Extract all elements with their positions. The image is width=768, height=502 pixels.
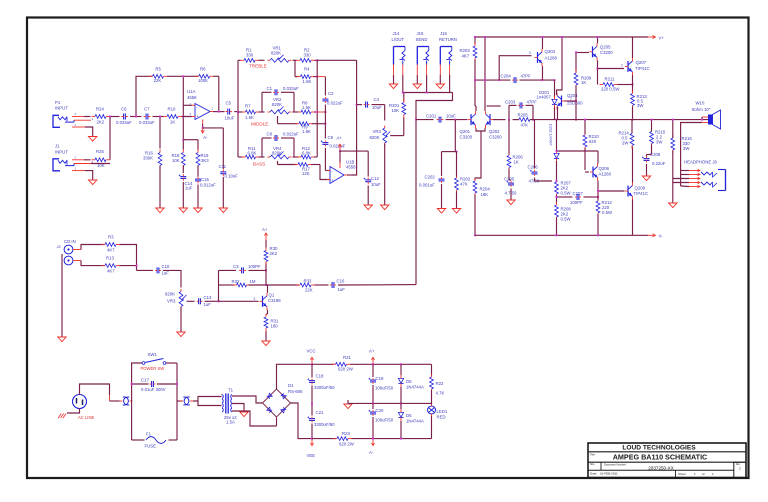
svg-text:HEADPHONE J6: HEADPHONE J6	[684, 160, 718, 165]
svg-text:J1: J1	[55, 144, 60, 149]
svg-text:C208: C208	[650, 152, 661, 157]
svg-text:4558: 4558	[187, 95, 197, 100]
svg-text:0.5W: 0.5W	[561, 191, 572, 196]
svg-text:0.033uF: 0.033uF	[139, 120, 155, 125]
svg-text:2037250-XX: 2037250-XX	[648, 465, 674, 470]
svg-text:18K: 18K	[481, 192, 489, 197]
svg-text:A-: A-	[369, 450, 374, 455]
svg-text:R32: R32	[232, 279, 240, 284]
svg-text:0.001uF: 0.001uF	[419, 183, 435, 188]
svg-text:0.033uF: 0.033uF	[116, 120, 132, 125]
svg-text:C7: C7	[144, 107, 150, 112]
svg-text:A+: A+	[369, 349, 375, 354]
svg-text:AMPEG BA110 SCHEMATIC: AMPEG BA110 SCHEMATIC	[613, 453, 708, 462]
svg-text:4.7K: 4.7K	[436, 391, 445, 396]
svg-text:L/OUT: L/OUT	[392, 37, 405, 42]
svg-text:W10: W10	[696, 101, 705, 106]
svg-text:10uF: 10uF	[371, 182, 381, 187]
svg-text:J16: J16	[440, 31, 448, 36]
svg-text:4K7: 4K7	[462, 54, 470, 59]
svg-text:Q201: Q201	[460, 129, 471, 134]
svg-text:FUSE: FUSE	[145, 444, 157, 449]
svg-text:TIP41C: TIP41C	[635, 66, 650, 71]
svg-text:LOUD TECHNOLOGIES: LOUD TECHNOLOGIES	[622, 444, 696, 451]
svg-text:820K: 820K	[370, 135, 380, 140]
svg-text:6.8K: 6.8K	[302, 151, 311, 156]
svg-text:100uF/50: 100uF/50	[375, 386, 394, 391]
svg-text:10uF: 10uF	[225, 116, 235, 121]
svg-text:C202: C202	[425, 175, 436, 180]
svg-text:10uF: 10uF	[372, 105, 382, 110]
svg-text:RS-606: RS-606	[288, 389, 303, 394]
svg-text:U1A: U1A	[187, 89, 195, 94]
svg-text:P1: P1	[55, 100, 61, 105]
svg-text:3300uF/50: 3300uF/50	[314, 385, 335, 390]
svg-text:R3: R3	[108, 235, 114, 240]
svg-text:1.5K: 1.5K	[302, 105, 311, 110]
svg-text:3W: 3W	[683, 146, 690, 151]
svg-text:620 2W: 620 2W	[338, 367, 354, 372]
svg-text:220 0.5W: 220 0.5W	[601, 87, 620, 92]
svg-text:100PF: 100PF	[248, 264, 261, 269]
svg-text:C5: C5	[226, 101, 232, 106]
svg-text:C3200: C3200	[600, 50, 613, 55]
svg-text:A+: A+	[262, 227, 268, 232]
svg-text:R22: R22	[436, 381, 444, 386]
svg-text:VCC: VCC	[307, 349, 316, 354]
svg-text:1.5K: 1.5K	[245, 115, 254, 120]
svg-text:T1: T1	[228, 388, 234, 393]
svg-text:C201: C201	[426, 114, 437, 119]
svg-text:10uF: 10uF	[446, 114, 456, 119]
svg-text:R33: R33	[304, 279, 312, 284]
svg-text:C10: C10	[162, 264, 170, 269]
svg-text:1uF: 1uF	[204, 302, 212, 307]
svg-text:Q303: Q303	[545, 49, 556, 54]
svg-text:3W: 3W	[637, 103, 644, 108]
svg-text:8ohm 10": 8ohm 10"	[692, 107, 711, 112]
svg-text:C18: C18	[316, 374, 324, 379]
svg-text:3300uF/50: 3300uF/50	[314, 422, 335, 427]
svg-text:820K: 820K	[165, 292, 175, 297]
svg-text:1.8K: 1.8K	[302, 129, 311, 134]
svg-text:C21: C21	[316, 410, 324, 415]
svg-text:Q202: Q202	[489, 129, 500, 134]
svg-text:1K: 1K	[514, 160, 519, 165]
svg-text:22K: 22K	[154, 78, 162, 83]
svg-text:R21: R21	[343, 355, 351, 360]
svg-text:4K7: 4K7	[107, 248, 115, 253]
svg-text:C9: C9	[328, 135, 334, 140]
svg-text:0.012uF: 0.012uF	[200, 183, 216, 188]
svg-text:C1: C1	[267, 86, 273, 91]
svg-text:820K: 820K	[272, 102, 282, 107]
svg-text:R25: R25	[96, 149, 104, 154]
svg-text:2W: 2W	[622, 141, 629, 146]
svg-text:1.5A: 1.5A	[226, 420, 235, 425]
svg-text:R7: R7	[245, 103, 251, 108]
svg-text:0.10uF: 0.10uF	[225, 174, 239, 179]
svg-text:47K: 47K	[521, 123, 529, 128]
svg-text:C16: C16	[337, 279, 345, 284]
svg-text:Document Number: Document Number	[604, 463, 626, 467]
svg-text:620: 620	[589, 139, 597, 144]
svg-text:0.033uF: 0.033uF	[283, 86, 299, 91]
svg-text:J14: J14	[393, 31, 401, 36]
svg-text:2K2: 2K2	[97, 120, 105, 125]
svg-text:A-: A-	[203, 135, 208, 140]
svg-text:C204: C204	[501, 74, 512, 79]
svg-text:C205: C205	[504, 177, 515, 182]
svg-text:C6: C6	[121, 107, 127, 112]
svg-text:C2: C2	[328, 91, 334, 96]
svg-text:D1: D1	[288, 383, 294, 388]
svg-text:Q205: Q205	[600, 45, 611, 50]
svg-text:47K: 47K	[460, 182, 468, 187]
svg-text:330: 330	[304, 52, 312, 57]
svg-text:TREBLE: TREBLE	[249, 64, 267, 69]
svg-text:Sheet: Sheet	[678, 472, 686, 476]
svg-text:820K: 820K	[272, 151, 282, 156]
svg-text:C3: C3	[233, 264, 239, 269]
svg-text:1M: 1M	[250, 279, 256, 284]
svg-text:V+: V+	[659, 36, 665, 41]
svg-text:R204: R204	[480, 187, 491, 192]
svg-text:Q208: Q208	[635, 186, 646, 191]
svg-text:R24: R24	[96, 107, 104, 112]
svg-text:INPUT: INPUT	[55, 150, 68, 155]
svg-text:R211: R211	[605, 77, 616, 82]
svg-text:VEE: VEE	[307, 453, 316, 458]
svg-text:C15: C15	[201, 177, 209, 182]
svg-text:0.22uF: 0.22uF	[652, 161, 666, 166]
svg-text:0.022uF: 0.022uF	[330, 144, 346, 149]
svg-text:SW1: SW1	[148, 352, 158, 357]
svg-text:D202 1n4007: D202 1n4007	[549, 124, 553, 146]
svg-text:CD IN: CD IN	[64, 239, 76, 244]
svg-text:1K: 1K	[581, 80, 586, 85]
svg-text:1n4007: 1n4007	[537, 95, 552, 100]
svg-text:C3200: C3200	[460, 135, 473, 140]
svg-text:J15: J15	[417, 31, 425, 36]
svg-text:3: 3	[529, 51, 531, 55]
svg-text:VR3: VR3	[167, 299, 176, 304]
svg-text:VR3: VR3	[373, 129, 382, 134]
svg-text:100PF: 100PF	[570, 200, 583, 205]
svg-text:C12: C12	[371, 176, 379, 181]
svg-text:RETURN: RETURN	[439, 37, 457, 42]
svg-text:POWER SW: POWER SW	[141, 366, 165, 371]
svg-text:180: 180	[271, 324, 279, 329]
svg-text:AC LINE: AC LINE	[78, 415, 94, 420]
svg-text:2: 2	[570, 97, 572, 101]
svg-text:Q1: Q1	[269, 293, 275, 298]
svg-text:C11: C11	[219, 164, 227, 169]
svg-text:10K: 10K	[97, 163, 105, 168]
svg-text:100uF/50: 100uF/50	[375, 418, 394, 423]
svg-text:4558: 4558	[346, 165, 356, 170]
svg-text:of: of	[702, 472, 705, 476]
svg-text:820K: 820K	[271, 50, 281, 55]
svg-text:1uF: 1uF	[185, 186, 193, 191]
svg-text:C203: C203	[505, 99, 516, 104]
svg-text:R203: R203	[460, 48, 471, 53]
svg-text:C3200: C3200	[489, 135, 502, 140]
svg-text:100K: 100K	[198, 78, 208, 83]
svg-text:1uF: 1uF	[162, 271, 170, 276]
svg-text:C206: C206	[528, 165, 539, 170]
svg-text:2: 2	[621, 64, 623, 68]
svg-text:47PF: 47PF	[527, 99, 538, 104]
svg-text:R23: R23	[342, 431, 350, 436]
svg-text:3: 3	[254, 297, 256, 301]
svg-text:Title: Title	[590, 452, 595, 456]
svg-text:INPUT: INPUT	[55, 106, 68, 111]
svg-text:3K3: 3K3	[201, 158, 209, 163]
svg-text:1K: 1K	[170, 120, 175, 125]
svg-text:Q207: Q207	[636, 60, 647, 65]
svg-text:330: 330	[246, 52, 254, 57]
svg-text:C3198: C3198	[268, 298, 281, 303]
svg-text:47PF: 47PF	[521, 74, 532, 79]
svg-text:1: 1	[739, 467, 741, 471]
svg-text:Q206: Q206	[599, 166, 610, 171]
svg-text:10K: 10K	[392, 108, 400, 113]
svg-text:TIP41C: TIP41C	[634, 191, 649, 196]
svg-text:R10: R10	[168, 107, 176, 112]
svg-text:2K2: 2K2	[270, 251, 278, 256]
svg-text:R5: R5	[155, 67, 161, 72]
svg-text:LED1: LED1	[437, 409, 448, 414]
svg-text:Size: Size	[590, 464, 595, 466]
svg-text:1N4744A: 1N4744A	[406, 385, 424, 390]
svg-text:0.022uF: 0.022uF	[327, 101, 343, 106]
svg-text:C13: C13	[204, 295, 212, 300]
svg-text:D5: D5	[406, 379, 412, 384]
svg-text:BASS: BASS	[253, 162, 265, 167]
svg-text:0.022uF: 0.022uF	[283, 132, 299, 137]
svg-text:R205: R205	[518, 113, 529, 118]
svg-text:6.8K: 6.8K	[248, 151, 257, 156]
svg-text:C207: C207	[573, 191, 584, 196]
svg-text:R4: R4	[304, 67, 310, 72]
svg-text:A1268: A1268	[545, 56, 558, 61]
svg-text:C8: C8	[267, 132, 273, 137]
svg-text:330K: 330K	[143, 156, 153, 161]
svg-text:1N4744A: 1N4744A	[406, 419, 424, 424]
svg-text:A+: A+	[337, 136, 343, 141]
svg-text:Date:: Date:	[590, 472, 597, 476]
svg-text:C20: C20	[376, 408, 384, 413]
svg-text:22K: 22K	[305, 288, 313, 293]
svg-text:F1: F1	[146, 432, 152, 437]
svg-text:12K: 12K	[302, 171, 310, 176]
svg-text:C19: C19	[376, 376, 384, 381]
svg-text:C4: C4	[374, 97, 380, 102]
svg-text:A1268: A1268	[599, 172, 612, 177]
svg-text:4K7: 4K7	[107, 269, 115, 274]
svg-text:R6: R6	[200, 67, 206, 72]
svg-text:R13: R13	[106, 256, 114, 261]
svg-text:C17: C17	[141, 378, 149, 383]
svg-text:SEND: SEND	[416, 37, 428, 42]
svg-text:1.8K: 1.8K	[303, 79, 312, 84]
svg-text:RED: RED	[437, 415, 446, 420]
svg-text:1uF: 1uF	[338, 287, 346, 292]
svg-text:10K: 10K	[172, 158, 180, 163]
svg-text:3W: 3W	[656, 140, 663, 145]
svg-text:0.5W: 0.5W	[602, 210, 613, 215]
svg-text:0.5W: 0.5W	[561, 217, 572, 222]
svg-text:620 2W: 620 2W	[339, 442, 355, 447]
svg-text:0.01uF 300V: 0.01uF 300V	[141, 387, 166, 392]
svg-text:D6: D6	[406, 413, 412, 418]
svg-text:MIDDLE: MIDDLE	[251, 122, 268, 127]
svg-text:16-FEB-2011: 16-FEB-2011	[600, 472, 618, 476]
svg-text:V-: V-	[659, 234, 664, 239]
